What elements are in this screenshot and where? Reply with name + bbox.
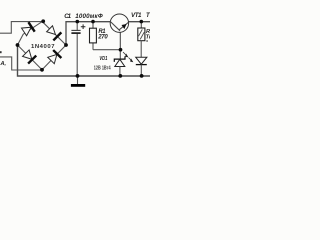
resistor R2 lead top xyxy=(140,22,142,28)
cut text mark at left edge xyxy=(0,51,2,53)
node bridge left xyxy=(16,43,20,47)
wire DC plus: right node up + top rail to right edge xyxy=(66,22,150,45)
wire AC input 2 (from left edge down to bottom AC node) xyxy=(0,57,42,70)
node R1 top xyxy=(91,20,95,24)
node C1 top xyxy=(76,20,80,24)
wire DC minus: left node down + bottom rail xyxy=(18,45,151,76)
node zener bottom on rail xyxy=(118,74,122,78)
transistor VT1 body circle xyxy=(110,14,128,32)
LED cathode bar xyxy=(136,64,147,66)
polarity plus sign of C1 xyxy=(81,24,86,29)
resistor R2 body with diagonal xyxy=(138,28,145,41)
node ground on rail xyxy=(76,74,80,78)
LED indicator diode triangle xyxy=(136,57,147,64)
svg-text:270: 270 xyxy=(97,35,108,41)
resistor R2 lead bottom xyxy=(140,41,142,58)
wire bridge diagonal bottom-right xyxy=(42,45,66,70)
node bridge right xyxy=(64,43,68,47)
zener diode VD1 lead top xyxy=(119,50,121,59)
svg-text:1000мкФ: 1000мкФ xyxy=(75,13,103,20)
node bridge top xyxy=(41,19,45,23)
svg-text:Т: Т xyxy=(146,13,150,19)
node base/zener xyxy=(119,48,123,52)
svg-text:VT1: VT1 xyxy=(131,12,142,19)
diode bridge bottom-left xyxy=(22,49,36,63)
svg-text:C1: C1 xyxy=(64,13,71,20)
resistor R1 leads xyxy=(93,22,120,50)
diode bridge bottom-right xyxy=(47,50,61,64)
wire bridge diagonal bottom-left xyxy=(18,45,43,70)
capacitor C1 leads xyxy=(76,22,78,76)
node R2 top xyxy=(140,20,144,24)
diode VD bridge top-left (1N4007) xyxy=(21,22,35,36)
node LED bottom on rail xyxy=(140,74,144,78)
wire AC input 1 (from left edge to bridge top node) xyxy=(0,22,44,34)
node bridge bottom xyxy=(40,68,44,72)
transistor VT1 emitter arrowhead xyxy=(122,24,126,28)
capacitor C1 plates xyxy=(71,29,80,31)
wire bridge diagonal top-right xyxy=(43,22,67,45)
transistor VT1 collector/emitter internal xyxy=(111,22,129,50)
LED arrow 1 xyxy=(123,52,132,61)
wire bridge diagonal top-left xyxy=(18,22,42,45)
zener diode VD1 cathode bar with hooks xyxy=(114,56,125,62)
LED lead bottom xyxy=(140,65,142,76)
ground symbol xyxy=(77,76,79,84)
resistor R1 body xyxy=(90,28,97,43)
svg-text:12В 1Вт4: 12В 1Вт4 xyxy=(94,66,111,72)
svg-text:Тк: Тк xyxy=(146,34,150,40)
svg-text:1N4007: 1N4007 xyxy=(31,44,55,50)
svg-text:1А,: 1А, xyxy=(0,61,7,67)
LED arrow 2 head xyxy=(130,58,133,62)
diode bridge top-right xyxy=(46,25,62,41)
svg-text:VD1: VD1 xyxy=(99,56,107,62)
zener diode VD1 triangle xyxy=(115,59,125,66)
zener diode VD1 lead bottom xyxy=(119,67,121,76)
cut text mark near R2 bottom xyxy=(146,40,148,41)
